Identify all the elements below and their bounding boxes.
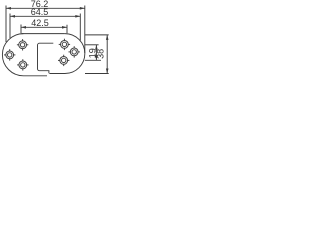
svg-text:42.5: 42.5: [31, 18, 49, 28]
svg-text:38: 38: [96, 49, 106, 59]
svg-text:64.5: 64.5: [31, 7, 49, 17]
